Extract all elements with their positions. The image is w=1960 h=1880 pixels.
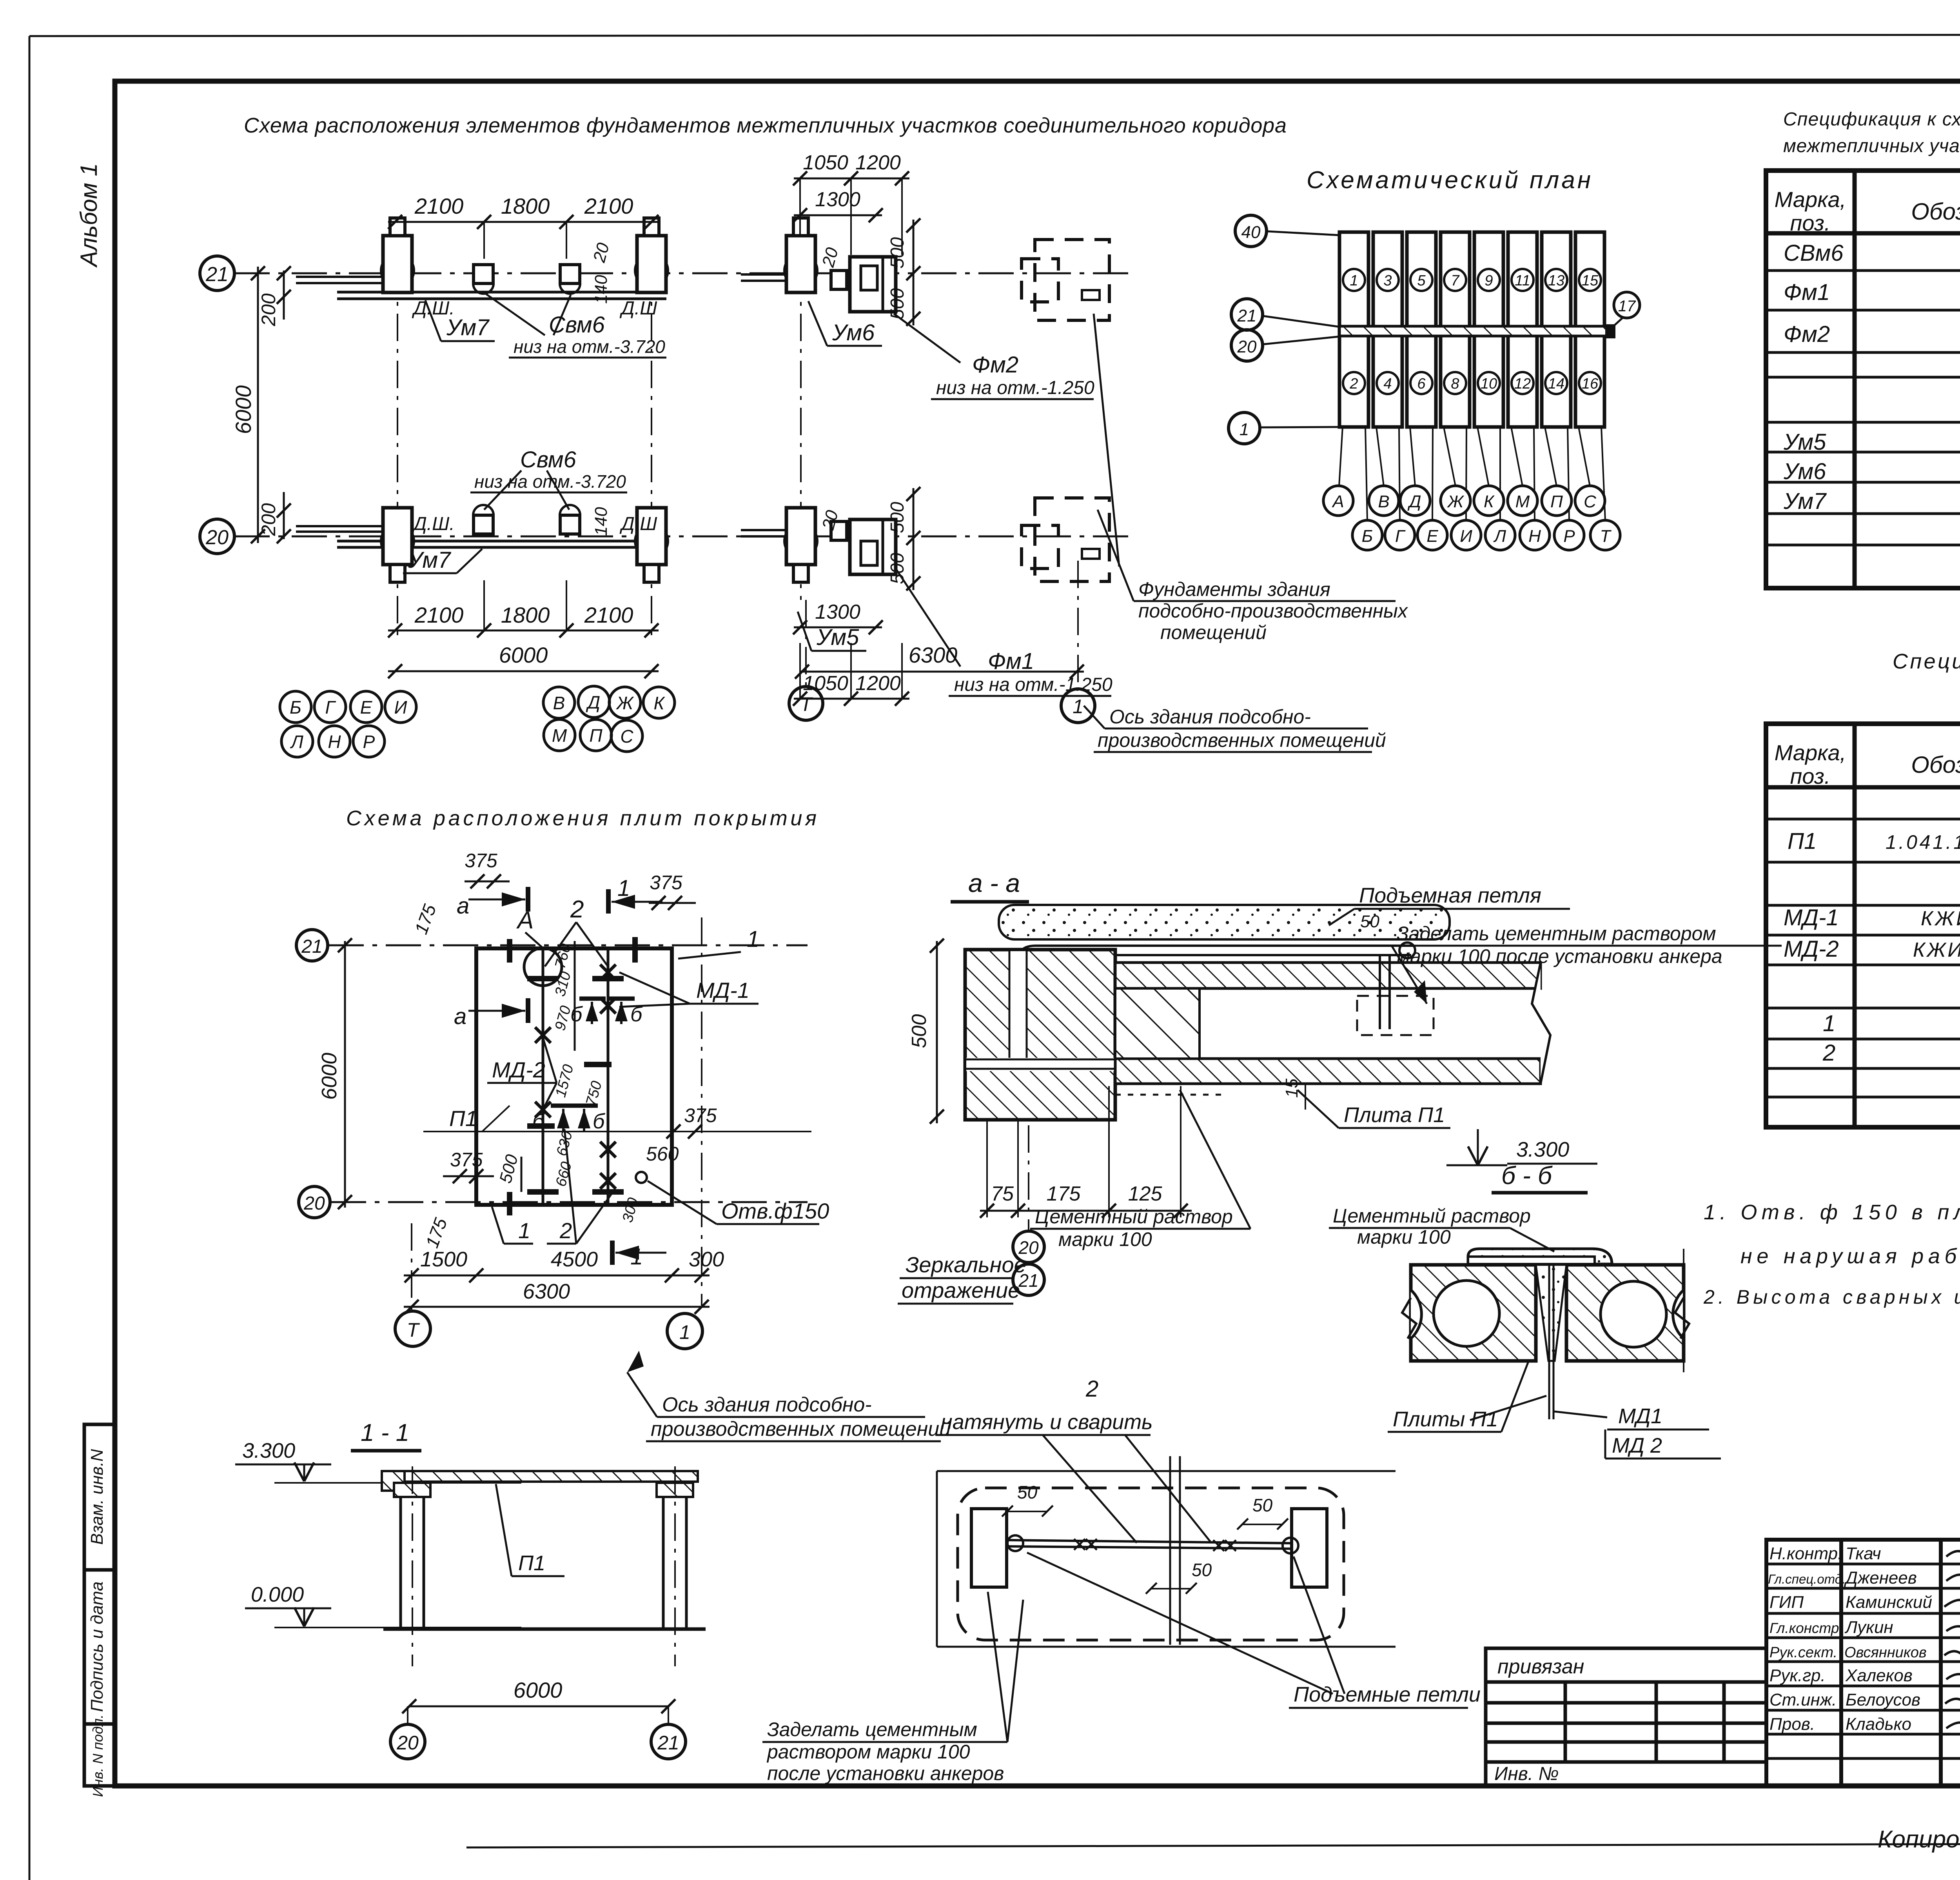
svg-text:10: 10	[1481, 376, 1497, 392]
svg-text:2: 2	[559, 1218, 572, 1243]
svg-text:Лукин: Лукин	[1844, 1618, 1893, 1637]
svg-text:1200: 1200	[855, 151, 901, 174]
svg-text:2100: 2100	[584, 194, 633, 218]
svg-text:15: 15	[1282, 1079, 1301, 1098]
axis T circle	[789, 687, 823, 720]
svg-text:Г: Г	[1395, 527, 1406, 546]
svg-text:14: 14	[1548, 376, 1564, 392]
svg-text:500: 500	[887, 553, 908, 584]
svg-text:Ум5: Ум5	[816, 625, 859, 650]
svg-text:Ткач: Ткач	[1846, 1544, 1881, 1563]
dim 2100 1800 2100 row20	[388, 630, 659, 632]
svg-text:Альбом 1: Альбом 1	[76, 163, 102, 268]
svg-text:1050: 1050	[803, 672, 848, 695]
svg-text:Подпись и дата: Подпись и дата	[87, 1582, 107, 1712]
svg-text:560: 560	[646, 1143, 679, 1165]
svg-text:Д.Ш.: Д.Ш.	[412, 514, 455, 534]
weld X marks	[535, 965, 616, 1189]
left slab	[1411, 1265, 1536, 1361]
svg-text:П1: П1	[518, 1551, 545, 1575]
dim line 1500 4500 300	[404, 1275, 710, 1277]
svg-text:П1: П1	[449, 1106, 477, 1131]
svg-text:а - а: а - а	[968, 868, 1020, 897]
svg-text:Гл.констр.: Гл.констр.	[1769, 1620, 1843, 1636]
svg-text:500: 500	[887, 502, 908, 533]
main hatched block	[965, 950, 1115, 1120]
svg-text:1: 1	[747, 926, 759, 952]
svg-text:Т: Т	[1600, 527, 1612, 546]
svg-text:В: В	[1378, 492, 1389, 511]
svg-text:Рук.гр.: Рук.гр.	[1769, 1666, 1826, 1685]
svg-text:12: 12	[1514, 376, 1531, 392]
dim 500 left	[936, 941, 938, 1123]
svg-text:2: 2	[570, 896, 584, 923]
dim 200 row20	[283, 492, 285, 539]
svg-text:поз.: поз.	[1790, 764, 1831, 788]
svg-text:140: 140	[592, 275, 611, 304]
svg-text:низ на отм.-3.720: низ на отм.-3.720	[474, 471, 626, 492]
svg-text:Овсянников: Овсянников	[1844, 1644, 1927, 1661]
svg-text:3.300: 3.300	[242, 1439, 295, 1462]
signatures squiggles	[1944, 1548, 1960, 1729]
svg-text:20: 20	[396, 1732, 419, 1754]
svg-text:ГИП: ГИП	[1769, 1593, 1804, 1612]
svg-text:Л: Л	[290, 732, 303, 752]
svg-text:Фм1: Фм1	[1784, 280, 1830, 305]
dashed building outline row20	[1022, 498, 1109, 581]
svg-text:Инв. N подл.: Инв. N подл.	[90, 1715, 106, 1797]
svg-text:Каминский: Каминский	[1846, 1593, 1932, 1612]
svg-text:МД 2: МД 2	[1612, 1434, 1662, 1457]
svg-text:50: 50	[1192, 1560, 1212, 1580]
bottom thin line	[466, 1843, 1960, 1847]
section b-b	[1329, 1161, 1721, 1459]
svg-text:125: 125	[1128, 1182, 1163, 1205]
pile cap centerlines	[397, 220, 398, 643]
spec table 1	[1766, 171, 1960, 588]
svg-text:раствором марки 100: раствором марки 100	[766, 1741, 970, 1763]
svg-text:поз.: поз.	[1790, 211, 1831, 235]
hole circle	[636, 1172, 647, 1183]
dims 1050 1200 row21	[794, 178, 909, 180]
svg-text:Е: Е	[1426, 527, 1438, 546]
svg-text:межтепличных участков соединит: межтепличных участков соединительного ко…	[1783, 136, 1960, 156]
dim 2100 1800 2100 row21	[388, 221, 659, 223]
svg-text:8: 8	[1451, 376, 1459, 392]
svg-text:Т: Т	[407, 1319, 420, 1341]
svg-text:50: 50	[1252, 1495, 1273, 1515]
svg-text:Схематический план: Схематический план	[1307, 167, 1591, 194]
axis line row 20	[234, 536, 1133, 538]
rotated dim chain	[574, 941, 576, 1051]
svg-text:200: 200	[258, 293, 279, 327]
weld x marks	[1074, 1539, 1236, 1551]
svg-text:Обозначение: Обозначение	[1911, 198, 1960, 225]
plate bottom strip	[1115, 1059, 1541, 1084]
bar number circles odd	[1343, 269, 1601, 291]
anchor plate right	[1292, 1509, 1327, 1587]
svg-text:1800: 1800	[501, 603, 550, 627]
joint ticks	[510, 937, 635, 1215]
svg-text:МД-2: МД-2	[492, 1057, 545, 1082]
dim 1300 row20	[794, 627, 882, 628]
svg-text:Д: Д	[586, 692, 600, 712]
svg-text:МД-1: МД-1	[1784, 905, 1839, 930]
partial cores at breaks	[1411, 1290, 1421, 1339]
svg-text:б: б	[532, 1110, 545, 1133]
svg-text:Н: Н	[328, 732, 341, 752]
svg-text:20: 20	[1237, 337, 1257, 356]
svg-text:Д: Д	[1407, 492, 1421, 511]
svg-text:17: 17	[1618, 298, 1636, 315]
svg-text:9: 9	[1485, 272, 1493, 289]
bottom dims 75 175 125	[987, 1086, 1181, 1217]
svg-text:3.300: 3.300	[1516, 1138, 1569, 1161]
svg-text:Ось здания подсобно-: Ось здания подсобно-	[1109, 706, 1311, 728]
axis circle 20b	[1231, 330, 1263, 361]
axis circle 20	[299, 1186, 330, 1218]
axis lines	[328, 945, 808, 946]
beam row20	[296, 525, 386, 527]
svg-text:А: А	[1331, 492, 1344, 511]
svg-text:производственных помещений: производственных помещений	[1098, 729, 1386, 751]
svg-text:СВм6: СВм6	[1784, 240, 1844, 266]
svg-text:привязан: привязан	[1497, 1655, 1584, 1678]
svg-text:1200: 1200	[855, 672, 901, 695]
column 2	[662, 1497, 665, 1629]
plate left core block	[1115, 988, 1200, 1059]
joint mortar	[1536, 1265, 1566, 1361]
schematic plan	[1229, 167, 1640, 550]
svg-text:Рук.сект.: Рук.сект.	[1769, 1644, 1837, 1661]
dim line 6300	[404, 1306, 710, 1308]
svg-text:175: 175	[1047, 1182, 1081, 1205]
axis 1 circle	[1061, 689, 1095, 723]
svg-text:13: 13	[1548, 272, 1564, 289]
svg-text:Фм2: Фм2	[972, 352, 1018, 378]
svg-text:К: К	[653, 693, 665, 713]
dims 1050 1200 row20	[794, 698, 909, 700]
greenhouse bars	[1339, 232, 1604, 427]
svg-text:Д.Ш: Д.Ш	[619, 298, 657, 319]
dim 200 row21	[283, 271, 285, 320]
svg-text:500: 500	[908, 1014, 931, 1048]
pile caps row20	[381, 525, 414, 558]
svg-text:низ на отм.-1.250: низ на отм.-1.250	[936, 378, 1094, 398]
svg-text:а: а	[457, 893, 469, 919]
letter circles bottom row	[1352, 520, 1620, 550]
small piles row20	[473, 505, 494, 525]
break marks	[1402, 1298, 1416, 1339]
svg-text:2: 2	[1085, 1376, 1098, 1402]
svg-text:Фундаменты здания: Фундаменты здания	[1138, 578, 1330, 600]
leader lines to letters	[1339, 427, 1605, 521]
circles 20 21	[1013, 1231, 1044, 1262]
right edge ext line	[1683, 1249, 1684, 1372]
svg-text:375: 375	[465, 850, 497, 872]
letter circles top row	[1323, 486, 1605, 516]
dashed building outline row21	[1022, 240, 1109, 320]
svg-text:марки 100: марки 100	[1357, 1226, 1451, 1248]
svg-text:И: И	[1460, 527, 1472, 546]
svg-text:Пров.: Пров.	[1769, 1715, 1815, 1734]
svg-text:21: 21	[657, 1732, 679, 1754]
svg-text:Р: Р	[1563, 527, 1575, 546]
plate rect	[476, 948, 672, 1205]
rod through joint	[1548, 1265, 1550, 1419]
svg-text:1: 1	[1350, 272, 1358, 289]
svg-text:а: а	[454, 1004, 466, 1029]
title block	[1486, 1535, 1960, 1787]
svg-text:21: 21	[301, 936, 322, 957]
dim 1300 row21	[794, 214, 882, 216]
svg-text:б: б	[593, 1110, 605, 1133]
slab	[382, 1471, 698, 1482]
spec table 2	[1766, 724, 1960, 1127]
svg-text:200: 200	[258, 503, 279, 536]
svg-text:6000: 6000	[514, 1678, 563, 1702]
solid border left part	[936, 1471, 938, 1647]
svg-text:6000: 6000	[231, 385, 256, 434]
axis circles	[390, 1724, 425, 1759]
dim 6000 row20	[388, 670, 659, 672]
svg-text:марки 100: марки 100	[1058, 1228, 1152, 1250]
svg-text:б: б	[630, 1003, 643, 1026]
svg-text:1. Отв. ф 150 в плите покрытия: 1. Отв. ф 150 в плите покрытия П1 пробит…	[1704, 1201, 1960, 1224]
svg-text:6300: 6300	[523, 1280, 570, 1303]
right jagged end	[1532, 963, 1550, 1084]
joint dotted	[1115, 1094, 1227, 1096]
svg-text:Спецификация к схеме расположе: Спецификация к схеме расположения элемен…	[1783, 109, 1960, 130]
svg-text:Кладько: Кладько	[1846, 1715, 1911, 1734]
svg-text:Н: Н	[1528, 527, 1541, 546]
svg-text:1 - 1: 1 - 1	[361, 1419, 409, 1446]
svg-text:Ж: Ж	[1447, 492, 1465, 511]
svg-text:Д.Ш: Д.Ш	[619, 514, 657, 534]
svg-text:Л: Л	[1493, 527, 1506, 546]
svg-text:Плиты П1: Плиты П1	[1393, 1408, 1498, 1431]
svg-text:140: 140	[592, 507, 611, 536]
svg-text:К: К	[1484, 492, 1495, 511]
column 1	[399, 1497, 402, 1629]
svg-text:отражение: отражение	[902, 1278, 1020, 1302]
svg-text:75: 75	[991, 1182, 1014, 1205]
svg-text:4500: 4500	[551, 1248, 598, 1271]
privyazan sub-table	[1486, 1648, 1766, 1786]
dims 500 500 row20	[913, 488, 915, 590]
svg-text:3: 3	[1383, 272, 1392, 289]
svg-text:Обозначение: Обозначение	[1911, 752, 1960, 778]
axis circle T	[395, 1311, 430, 1346]
section 1-1	[235, 1419, 706, 1759]
plates plan	[296, 806, 951, 1441]
dashed plate outline	[958, 1488, 1344, 1640]
svg-text:500: 500	[887, 237, 908, 269]
bottom middle detail	[762, 1376, 1481, 1784]
tie rod	[1007, 1540, 1292, 1543]
svg-text:П: П	[589, 725, 603, 746]
corridor strip	[1339, 326, 1612, 336]
concrete topping stipple band	[999, 905, 1450, 939]
svg-text:20: 20	[303, 1193, 325, 1214]
svg-text:1300: 1300	[815, 601, 860, 623]
svg-text:1300: 1300	[815, 188, 860, 211]
svg-text:Б: Б	[1362, 527, 1373, 546]
svg-text:2100: 2100	[414, 194, 464, 218]
svg-text:В: В	[553, 693, 565, 713]
strip circle 17	[1614, 292, 1640, 318]
axis circle 1	[667, 1313, 702, 1349]
svg-text:Белоусов: Белоусов	[1846, 1690, 1920, 1709]
svg-text:Г: Г	[325, 697, 336, 717]
axis circle 21	[296, 930, 328, 961]
svg-text:М: М	[552, 725, 567, 746]
svg-text:С: С	[620, 726, 633, 747]
svg-text:Е: Е	[360, 697, 373, 717]
svg-text:1800: 1800	[501, 194, 550, 218]
svg-text:Заделать цементным раствором: Заделать цементным раствором	[1397, 923, 1716, 945]
svg-text:1: 1	[679, 1321, 690, 1343]
svg-text:Взам. инв.N: Взам. инв.N	[87, 1449, 107, 1545]
svg-text:50: 50	[1017, 1482, 1038, 1502]
svg-text:Марка,: Марка,	[1775, 187, 1846, 212]
svg-text:7: 7	[1451, 272, 1460, 289]
cores	[1434, 1281, 1499, 1346]
anchor rod top	[1018, 946, 1414, 1066]
svg-text:Схема расположения элементов ф: Схема расположения элементов фундаментов…	[244, 114, 1287, 137]
svg-text:Свм6: Свм6	[520, 447, 577, 472]
svg-text:Н.контр.: Н.контр.	[1769, 1544, 1842, 1563]
svg-text:1: 1	[1240, 420, 1249, 439]
anchor plate left	[971, 1509, 1007, 1587]
horizontal rod band	[966, 1058, 1114, 1071]
svg-text:21: 21	[1237, 306, 1257, 325]
svg-text:6000: 6000	[318, 1053, 341, 1100]
column capitals	[394, 1483, 430, 1497]
svg-text:Ум6: Ум6	[832, 320, 875, 345]
svg-text:Подъемная петля: Подъемная петля	[1359, 884, 1541, 907]
svg-text:Цементный раствор: Цементный раствор	[1035, 1206, 1233, 1228]
svg-text:Ст.инж.: Ст.инж.	[1769, 1690, 1837, 1709]
svg-text:помещений: помещений	[1160, 621, 1267, 643]
svg-text:А: А	[516, 907, 534, 934]
centerline	[1169, 1456, 1171, 1645]
plate top strip	[1115, 963, 1541, 988]
axis circle 21b	[1231, 299, 1263, 330]
left margin boxes	[84, 1424, 115, 1786]
svg-text:КЖИ-14.00.00-01: КЖИ-14.00.00-01	[1913, 939, 1960, 961]
axis line row 21	[234, 272, 1133, 274]
svg-text:2100: 2100	[584, 603, 633, 627]
svg-text:20: 20	[205, 526, 229, 549]
svg-text:Ум5: Ум5	[1783, 429, 1826, 455]
svg-text:50: 50	[1360, 912, 1379, 931]
svg-text:21: 21	[205, 263, 229, 286]
axis circle 1b	[1229, 412, 1260, 444]
svg-text:Халеков: Халеков	[1845, 1666, 1913, 1685]
svg-text:Зеркальное: Зеркальное	[906, 1252, 1026, 1277]
svg-text:Ум6: Ум6	[1783, 459, 1826, 484]
svg-text:4: 4	[1383, 376, 1392, 392]
right slab	[1566, 1265, 1684, 1361]
svg-text:1: 1	[1073, 696, 1083, 717]
svg-text:2100: 2100	[414, 603, 464, 627]
svg-text:Копировал Ахромова: Копировал Ахромова	[1878, 1826, 1960, 1853]
svg-text:Т: Т	[800, 693, 813, 715]
svg-text:П1: П1	[1788, 828, 1817, 854]
svg-text:11: 11	[1515, 272, 1530, 289]
svg-text:П: П	[1550, 492, 1563, 511]
ground line	[383, 1628, 706, 1631]
svg-text:15: 15	[1582, 272, 1599, 289]
anchor assembly	[1379, 955, 1381, 1029]
axis circle 21	[200, 256, 234, 291]
svg-text:375: 375	[650, 872, 682, 894]
svg-text:Ум7: Ум7	[446, 315, 490, 340]
svg-text:Ось здания подсобно-: Ось здания подсобно-	[662, 1393, 872, 1416]
svg-text:Плита П1: Плита П1	[1344, 1103, 1445, 1127]
svg-text:16: 16	[1582, 376, 1599, 392]
svg-text:МД-2: МД-2	[1784, 936, 1839, 962]
svg-text:375: 375	[450, 1149, 483, 1171]
svg-text:натянуть и сварить: натянуть и сварить	[941, 1410, 1153, 1434]
beam row21	[296, 276, 386, 278]
svg-text:Цементный раствор: Цементный раствор	[1333, 1205, 1531, 1227]
dim 6000 vertical	[344, 941, 346, 1208]
svg-text:6000: 6000	[499, 643, 548, 667]
svg-text:2: 2	[1822, 1040, 1835, 1066]
svg-text:марки 100 после установки анке: марки 100 после установки анкера	[1397, 945, 1722, 967]
svg-text:500: 500	[887, 288, 908, 320]
Fm2 block row21	[850, 257, 896, 312]
svg-text:после установки анкеров: после установки анкеров	[767, 1762, 1004, 1784]
svg-text:МД1: МД1	[1618, 1404, 1662, 1428]
svg-text:Гл.спец.отд.: Гл.спец.отд.	[1768, 1572, 1846, 1586]
svg-text:б - б: б - б	[1501, 1161, 1553, 1190]
mortar cap	[1468, 1249, 1612, 1264]
svg-text:Р: Р	[363, 732, 375, 752]
dim 6000	[409, 1706, 668, 1707]
svg-text:1: 1	[518, 1218, 530, 1243]
svg-text:6300: 6300	[909, 643, 958, 667]
dim 6300	[800, 671, 1084, 673]
svg-text:300: 300	[689, 1248, 724, 1271]
svg-text:низ на отм.-3.720: низ на отм.-3.720	[514, 336, 665, 357]
svg-text:375: 375	[684, 1104, 717, 1126]
svg-text:И: И	[394, 697, 407, 717]
svg-text:производственных помещений: производственных помещений	[651, 1418, 951, 1440]
dims 500 500 row21	[913, 220, 915, 325]
svg-text:5: 5	[1417, 272, 1426, 289]
svg-text:Подъемные петли: Подъемные петли	[1294, 1683, 1481, 1706]
foundation plan	[200, 151, 1408, 757]
small piles row21	[473, 273, 494, 294]
letter circles cluster1	[280, 691, 416, 757]
svg-text:40: 40	[1241, 223, 1261, 242]
centerline	[1028, 1125, 1029, 1231]
pile caps row21	[381, 254, 414, 287]
axis circle 20	[200, 519, 234, 554]
svg-text:Фм2: Фм2	[1784, 322, 1830, 347]
letter circles cluster2	[543, 686, 675, 752]
axis circle 40	[1235, 215, 1267, 247]
Fm1 block row20	[850, 519, 896, 574]
svg-text:С: С	[1584, 492, 1597, 511]
svg-text:Ж: Ж	[616, 693, 634, 713]
svg-text:Фм1: Фм1	[988, 648, 1034, 674]
svg-text:6: 6	[1417, 376, 1426, 392]
svg-text:Заделать цементным: Заделать цементным	[767, 1718, 977, 1740]
